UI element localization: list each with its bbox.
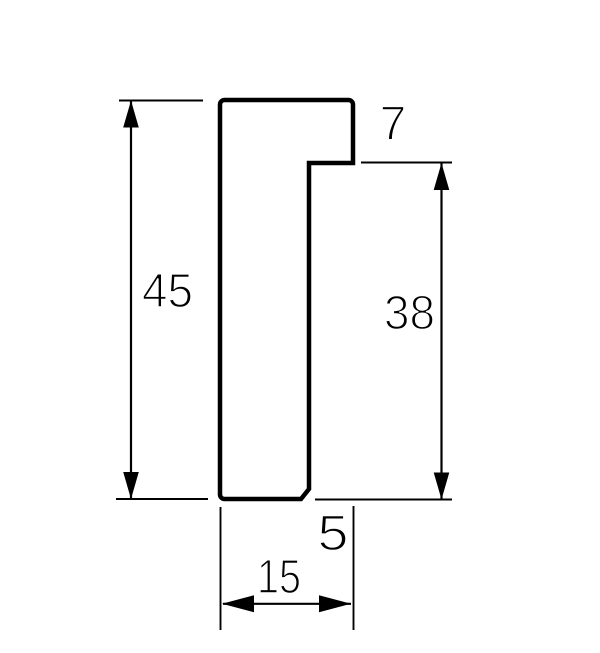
svg-text:7: 7 [380,98,407,151]
extension line top (45 dim) [119,100,203,102]
arrow up (38) [434,163,450,190]
arrow down (45) [123,472,139,499]
arrow up (45) [123,101,139,128]
arrow down (38) [434,473,450,500]
extension line left (15 dim) [220,507,222,630]
dimension line 38 [440,163,442,499]
extension line bottom (45 dim) [116,498,208,500]
profile outline [220,100,353,499]
extension line bottom right (38 dim) [315,499,452,501]
extension line step (38/7 dim) [361,162,452,164]
dimension line 15 [223,603,351,605]
extension line right (15 dim) [353,506,355,630]
svg-text:38: 38 [384,287,435,340]
arrow right (15) [319,595,351,612]
dimension line 45 [130,101,132,498]
svg-text:15: 15 [257,551,301,604]
arrow left (15) [222,595,254,612]
svg-text:45: 45 [142,265,193,318]
svg-text:5: 5 [318,505,349,561]
